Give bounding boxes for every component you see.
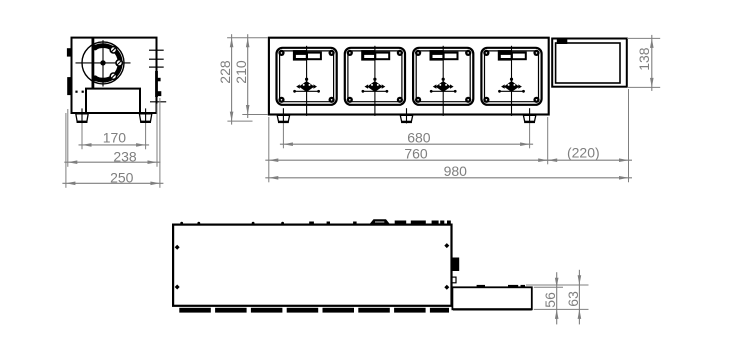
top view corner diamonds [175,243,450,290]
svg-text:760: 760 [404,146,428,162]
svg-text:228: 228 [217,60,233,84]
side view right edge ticks [149,50,166,102]
top view dim extension lines [526,285,589,309]
dimension 238 [64,149,160,165]
burner panel 2 [345,48,405,105]
dimension 210 [233,34,249,118]
svg-text:250: 250 [110,170,134,186]
panel 2 centerline [374,46,376,116]
dimension 980 [265,163,632,180]
top view bottom edge pads [179,308,449,313]
panel 1 corner screws [278,50,334,103]
side view right edge fittings [155,71,161,97]
panel 3 centerline [442,46,444,116]
dimension (220) [544,145,632,163]
dimension 760 [265,146,551,162]
panel 2 corner screws [347,50,403,103]
drawer dots [75,91,83,93]
fan shroud arc [92,45,120,82]
front view right foot [523,108,535,123]
fan screws [110,47,122,80]
side shelf [552,38,627,87]
svg-text:680: 680 [407,130,431,146]
svg-text:170: 170 [103,130,127,146]
svg-text:980: 980 [444,163,468,179]
svg-text:138: 138 [636,47,652,71]
panel 3 pilot assembly [430,50,458,61]
shelf top fittings [477,285,525,287]
side view left edge fittings [67,48,72,95]
panel 3 burner symbol [430,78,457,93]
panel 1 centerline [306,46,308,116]
panel 4 centerline [511,46,513,116]
burner panel 3 [413,48,473,105]
panel 4 burner symbol [498,78,525,93]
side view cabinet outline [72,38,157,113]
top view handle bump [369,219,390,224]
front view extension lines [227,38,660,183]
panel 2 burner symbol [362,78,389,93]
dimension 138 [636,35,654,91]
dimension 228 [217,34,234,124]
dimension 680 [280,130,533,146]
side view extension lines [66,98,160,188]
side view right foot [139,108,151,123]
fan crosshair [76,40,131,86]
side view fan circle [82,42,124,84]
side view base drawer [86,89,140,113]
front view left foot [277,108,289,123]
svg-text:210: 210 [233,60,249,84]
dimension 170 [79,130,150,147]
front view middle foot [400,108,412,123]
dimension 63 [565,270,581,325]
burner panel 1 [277,48,337,105]
fan hub dot [100,60,105,65]
panel 1 pilot assembly [293,50,321,61]
svg-text:63: 63 [565,291,581,307]
burner panel 4 [481,48,541,105]
svg-text:(220): (220) [567,145,600,161]
side view vertical panel edge [92,38,95,89]
dimension 56 [542,272,558,324]
panel 4 pilot assembly [498,50,526,61]
panel 2 pilot assembly [361,50,389,61]
panel 1 burner symbol [293,78,320,93]
top view shelf [452,287,531,309]
svg-text:56: 56 [542,292,558,308]
svg-text:238: 238 [113,149,137,165]
top view right edge tab [452,258,459,283]
panel 3 corner screws [415,50,471,103]
top view top edge fittings [180,221,451,225]
panel 4 corner screws [483,50,539,103]
dimension 250 [62,170,163,186]
side view left foot [76,108,88,123]
front view body outline [269,38,549,115]
top view body outline [173,225,451,306]
